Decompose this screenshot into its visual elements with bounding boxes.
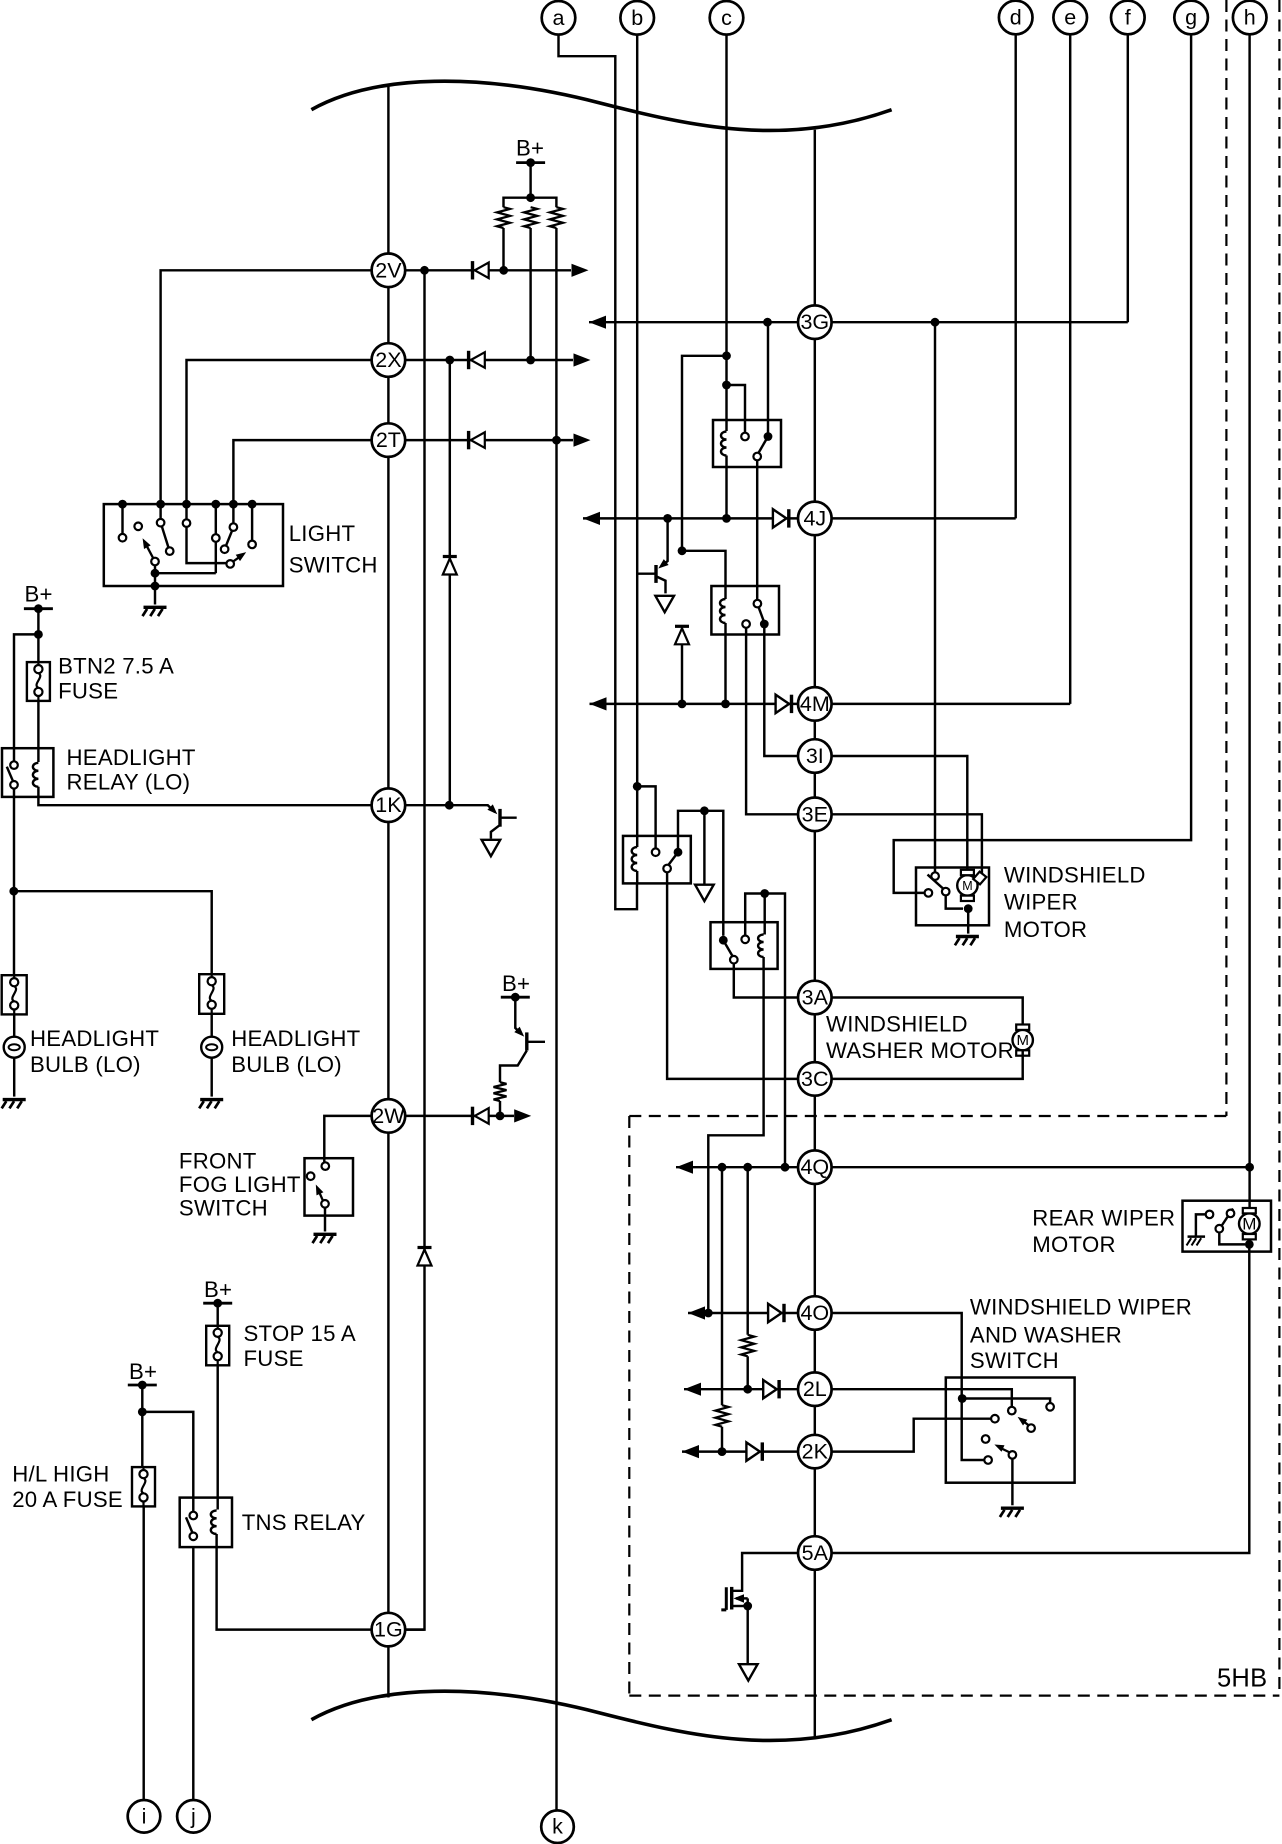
light switch lever with arrow (left) — [143, 538, 154, 558]
resistor R3 (right) — [550, 207, 563, 228]
wire 4M row — [590, 703, 1071, 705]
relay 3 contact open — [652, 848, 660, 856]
svg-text:g: g — [1185, 6, 1197, 30]
label LIGHT SWITCH — [289, 521, 378, 577]
ground (right headlight bulb) — [199, 1100, 223, 1109]
wire left bulb to ground — [13, 1058, 15, 1097]
junction 2W/R4 — [496, 1112, 505, 1121]
label H/L HIGH 20 A FUSE — [12, 1462, 123, 1513]
wire h: down to 4Q line — [1248, 33, 1250, 1167]
svg-text:BULB (LO): BULB (LO) — [30, 1052, 141, 1077]
junction resistor bus — [526, 193, 535, 202]
switch wiper 1 with arrow — [1018, 1417, 1029, 1426]
relay 2 coil — [720, 599, 726, 623]
torn-wire break curve (bottom) — [311, 1691, 891, 1740]
light switch bottom junction — [151, 582, 160, 591]
connector h — [1233, 1, 1267, 35]
wire B+ to STOP fuse — [216, 1303, 218, 1326]
svg-text:h: h — [1244, 6, 1256, 30]
relay 1 contact open — [741, 433, 749, 441]
connector 4J — [798, 502, 832, 536]
windshield wiper motor box — [916, 868, 989, 926]
transistor Q3 arrow — [514, 1027, 524, 1037]
junction 4M/diode line — [678, 700, 687, 709]
junction B+ branch — [34, 630, 43, 639]
wire h-line down to rear motor — [1248, 1167, 1250, 1209]
light switch contact stub 2 — [159, 504, 161, 519]
arrow 3G row — [589, 316, 606, 329]
relay 2 contact top — [754, 600, 762, 608]
connector 2X — [372, 343, 406, 377]
diode D6 on 2W row — [473, 1107, 489, 1125]
wire 2X row right — [405, 359, 573, 361]
label WINDSHIELD WASHER MOTOR — [826, 1012, 1014, 1063]
junction b-line/contact branch — [633, 782, 642, 791]
transistor Q2 bar — [654, 565, 657, 583]
transistor Q1 emitter to ground — [491, 826, 499, 839]
label WINDSHIELD WIPER MOTOR — [1004, 862, 1146, 942]
wire e: down to 4M line — [1069, 33, 1071, 704]
connector 3E — [798, 798, 832, 832]
diode D11 before 2L — [763, 1380, 779, 1398]
wire 5A row left to MOSFET — [733, 1553, 798, 1591]
junction 2K/R6 — [718, 1447, 727, 1456]
svg-text:3A: 3A — [802, 986, 829, 1010]
light switch contact C4 — [166, 547, 174, 555]
wire g: down, left, down into wiper motor switch — [894, 33, 1191, 893]
light switch contact stub 6 — [251, 504, 253, 540]
switch contact C (4O lower) — [984, 1456, 992, 1464]
light switch contact C3 — [157, 519, 165, 527]
wire relay4 coil bottom to 4O row — [708, 957, 763, 1313]
svg-text:1K: 1K — [375, 793, 402, 817]
svg-text:3C: 3C — [801, 1067, 828, 1091]
wire relay contact down to bulbs — [13, 789, 15, 976]
svg-text:REAR WIPER: REAR WIPER — [1032, 1205, 1175, 1230]
svg-text:STOP 15 A: STOP 15 A — [244, 1321, 356, 1346]
arrow 4O row — [688, 1306, 705, 1319]
light switch box — [104, 504, 283, 586]
svg-text:SWITCH: SWITCH — [179, 1195, 268, 1220]
resistor bus — [504, 198, 557, 208]
fog switch contact top — [322, 1162, 330, 1170]
wire fuse to relay coil — [37, 701, 39, 762]
svg-text:b: b — [631, 6, 643, 30]
switch contact A (2L) — [1008, 1407, 1016, 1415]
connector g — [1174, 1, 1208, 35]
svg-text:4J: 4J — [803, 506, 826, 530]
ground triangle (relay3 circuit) — [695, 885, 714, 901]
connector 3I — [798, 739, 832, 773]
connector f — [1111, 1, 1145, 35]
wire branch to right bulb — [14, 891, 212, 974]
svg-text:d: d — [1010, 6, 1022, 30]
wire rear switch common to motor bottom — [1219, 1233, 1245, 1245]
diode D12 before 2K — [746, 1442, 762, 1460]
arrow 2V row — [572, 264, 589, 277]
svg-text:j: j — [190, 1804, 196, 1828]
wire relay2 coil to 4M row — [724, 623, 726, 704]
left connector spine — [387, 87, 389, 1698]
B+ supply (H/L fuse) — [128, 1359, 157, 1390]
wire branch to relay contact — [14, 634, 38, 761]
wire c branch left down (to relay2 coil, diode, 4M) — [682, 356, 727, 551]
svg-text:3I: 3I — [806, 744, 824, 768]
light switch contact C7 — [221, 545, 229, 553]
TNS relay box — [180, 1498, 232, 1548]
wire switch common to motor bottom — [946, 895, 963, 908]
wire c branch to relay1 contact — [727, 385, 746, 433]
MOSFET source bend — [746, 1598, 748, 1606]
relay 4 box — [711, 922, 778, 969]
svg-text:M: M — [1016, 1032, 1029, 1049]
fuse STOP 15 A — [206, 1326, 229, 1366]
wire x=450 from 2X row down to 1K row — [449, 360, 451, 805]
wiper motor switch contact top — [931, 872, 939, 880]
relay 4 contact closed — [719, 936, 728, 945]
junction 4O inside switch — [958, 1394, 967, 1403]
relay 4 lever — [723, 940, 732, 956]
wire 4O branch to contact B — [962, 1399, 1050, 1404]
transistor Q3 base stub — [527, 1041, 545, 1043]
junction 3G/wiper switch line — [931, 318, 940, 327]
relay 1 box (headlight relay HI) — [713, 420, 781, 467]
connector d — [999, 1, 1033, 35]
light switch lever pivot C10 — [226, 560, 234, 568]
wire diode to 4M row — [681, 644, 683, 704]
fog switch common — [321, 1200, 329, 1208]
connector b — [620, 1, 654, 35]
svg-text:WINDSHIELD: WINDSHIELD — [826, 1012, 968, 1037]
relay 1 lever — [759, 437, 769, 453]
wire R4 to 2W row — [499, 1101, 501, 1116]
arrow 2K row — [682, 1445, 699, 1458]
diode D5 on x=450 line (pointing up) — [443, 557, 457, 575]
light switch contact stub 4 — [215, 504, 217, 534]
wire 2W row right — [405, 1115, 514, 1117]
wire B+ down to H/L fuse — [141, 1385, 143, 1467]
wire 3I to wiper motor — [832, 756, 968, 872]
label FRONT FOG LIGHT SWITCH — [179, 1149, 301, 1221]
diode D2 on 2X row — [469, 351, 485, 369]
wire rear motor bottom to 5A row — [832, 1244, 1250, 1553]
fog switch lever with arrow — [316, 1185, 324, 1201]
svg-text:2W: 2W — [372, 1104, 405, 1128]
connector 2V — [372, 253, 406, 287]
svg-text:B+: B+ — [502, 971, 530, 996]
wire relay coil to 1K row — [38, 787, 371, 805]
svg-text:4Q: 4Q — [800, 1155, 829, 1179]
wire right bulb to ground — [210, 1058, 212, 1097]
label 5HB — [1217, 1664, 1267, 1692]
resistor R4 (fog) — [494, 1082, 507, 1101]
svg-text:HEADLIGHT: HEADLIGHT — [67, 745, 196, 770]
svg-text:FUSE: FUSE — [244, 1346, 304, 1371]
connector 4M — [798, 687, 832, 721]
switch contact D (2K) — [991, 1415, 999, 1423]
junction diode-line/relay2 coil — [678, 546, 687, 555]
relay 4 coil (right side) — [758, 935, 764, 958]
connector 5A — [798, 1536, 832, 1570]
wire fuse to right bulb — [210, 1014, 212, 1037]
junction MOSFET source — [743, 1602, 752, 1611]
arrow 4M row — [590, 697, 607, 710]
resistor R2 (middle) — [524, 207, 537, 228]
wire relay1 closed contact up to 3G — [767, 322, 769, 436]
svg-text:H/L HIGH: H/L HIGH — [12, 1462, 109, 1487]
svg-text:HEADLIGHT: HEADLIGHT — [30, 1026, 159, 1051]
label REAR WIPER MOTOR — [1032, 1205, 1175, 1257]
fuse H/L HIGH 20 A — [132, 1467, 155, 1506]
wire fuse to left bulb — [13, 1014, 15, 1036]
ground (left headlight bulb) — [2, 1100, 26, 1109]
light switch terminal junctions — [118, 500, 256, 509]
relay 4 contact open — [741, 936, 749, 944]
switch wiper 2 with arrow — [994, 1445, 1009, 1453]
relay 1 contact closed — [764, 432, 773, 441]
svg-text:BTN2 7.5 A: BTN2 7.5 A — [58, 653, 174, 678]
wire TNS coil to 1G — [217, 1534, 372, 1630]
junction bulb branch — [9, 887, 18, 896]
light switch contact C2 — [134, 523, 142, 531]
B+ supply (headlight relay) — [24, 582, 53, 614]
dashed 5HB box bottom edge — [629, 1694, 1279, 1696]
wire 2V row right — [405, 269, 571, 271]
connector 2T — [372, 423, 406, 457]
headlight bulb (LO) left — [4, 1037, 25, 1058]
fuse BTN2 7.5 A — [27, 662, 50, 701]
headlight relay contact top — [10, 761, 18, 769]
svg-text:2X: 2X — [375, 348, 401, 372]
B+ supply (fog transistor) — [501, 971, 530, 1001]
ground (light switch) — [143, 607, 167, 616]
wire R1 to 2V row — [502, 228, 504, 270]
diode D9 before 4M — [776, 695, 792, 713]
wire f: down to 3G line — [1127, 33, 1129, 322]
junction 4Q/resistor to 2L — [743, 1163, 752, 1172]
junction relay4 coil top — [760, 889, 769, 898]
TNS relay coil — [211, 1510, 217, 1534]
light switch contact C8 — [230, 523, 238, 531]
svg-text:B+: B+ — [25, 582, 53, 607]
label WINDSHIELD WIPER AND WASHER SWITCH — [970, 1294, 1192, 1373]
light switch closed contact C3-C4 — [162, 526, 169, 547]
headlight relay contact bottom — [10, 781, 18, 789]
svg-text:M: M — [962, 879, 972, 893]
ground (rear motor) — [1187, 1237, 1206, 1246]
relay 2 lever — [759, 607, 764, 620]
resistor R5 (4Q to 2L) — [741, 1167, 754, 1389]
wire x=424 from 2V row down to 1G — [406, 270, 425, 1629]
svg-text:c: c — [721, 6, 732, 30]
wire 1K row right — [405, 805, 495, 812]
headlight relay lever — [7, 767, 13, 782]
connector e — [1053, 1, 1087, 35]
wiper motor switch lever — [928, 875, 946, 891]
svg-text:B+: B+ — [516, 136, 544, 161]
MOSFET source stub with arrow — [734, 1594, 748, 1603]
transistor Q3 bar — [525, 1032, 528, 1050]
wire to relay2 coil — [682, 551, 726, 599]
relay 4 common — [730, 956, 738, 964]
fuse (right headlight) — [199, 974, 224, 1014]
svg-text:AND WASHER: AND WASHER — [970, 1323, 1122, 1348]
switch wiper 1 pivot — [1027, 1424, 1035, 1432]
MOSFET gate bar — [721, 1587, 726, 1610]
svg-text:FUSE: FUSE — [58, 679, 118, 704]
front fog light switch box — [305, 1158, 354, 1215]
MOSFET drain-source stub — [733, 1605, 748, 1607]
light switch contact stub 1 — [121, 504, 123, 534]
relay 3 contact closed — [674, 848, 683, 857]
wire B+ down — [37, 609, 39, 662]
svg-text:MOTOR: MOTOR — [1004, 917, 1087, 942]
svg-text:TNS RELAY: TNS RELAY — [242, 1510, 366, 1535]
wire wiper motor to ground — [967, 909, 969, 934]
junction c-line lower — [722, 381, 731, 390]
label HEADLIGHT RELAY (LO) — [67, 745, 196, 794]
svg-text:a: a — [553, 6, 565, 30]
motor M (windshield washer) — [1013, 1025, 1033, 1056]
rear motor switch lever — [1222, 1209, 1233, 1226]
junction 4O/relay4 coil line — [704, 1309, 713, 1318]
right connector spine — [814, 130, 816, 1738]
light switch wire C6 down to common bus — [215, 542, 217, 573]
wire 3E to wiper motor tab — [832, 814, 982, 876]
junction 4Q/resistor to 2K — [718, 1163, 727, 1172]
relay 2 contact open — [742, 620, 750, 628]
rear motor switch pivot — [1227, 1210, 1235, 1218]
wire 2V to light switch — [161, 270, 372, 502]
junction c-line upper — [722, 351, 731, 360]
svg-text:WIPER: WIPER — [1004, 890, 1078, 915]
fog switch contact left — [307, 1172, 315, 1180]
svg-text:BULB (LO): BULB (LO) — [231, 1052, 342, 1077]
wire d: down to 4J line — [1014, 33, 1016, 518]
svg-text:4O: 4O — [800, 1301, 829, 1325]
wire k-line from 2T row to connector k — [555, 440, 557, 1810]
light switch contact C9 — [248, 541, 256, 549]
wire relay3 closed contact up and over to relay4 — [678, 811, 723, 936]
dashed boundary line x=1226 (top) — [1225, 0, 1227, 1116]
wire relay3 coil bottom (to a-line) — [636, 871, 638, 883]
wire relay2 open to 3E — [746, 628, 798, 815]
wire 1G right — [406, 1628, 425, 1630]
light switch wire C5 to lever pivot — [187, 527, 227, 563]
light switch common junction — [151, 569, 160, 578]
wire STOP fuse to TNS coil — [216, 1365, 218, 1509]
relay 2 contact closed — [760, 620, 769, 629]
junction 2L/R5 — [743, 1385, 752, 1394]
wire B+ down to resistor bus — [529, 163, 531, 198]
connector 2L — [798, 1372, 832, 1406]
wire R3 to 2T row — [555, 228, 557, 440]
resistor R6 (4Q to 2K) — [716, 1167, 729, 1451]
rear motor ground contact — [1206, 1211, 1214, 1219]
wiper motor switch common — [942, 888, 950, 896]
label STOP 15 A FUSE — [244, 1321, 356, 1371]
junction ground branch — [700, 806, 709, 815]
wire 2L right into switch — [777, 1389, 1012, 1406]
transistor Q2 base wire — [637, 572, 656, 574]
svg-text:MOTOR: MOTOR — [1032, 1232, 1115, 1257]
svg-text:HEADLIGHT: HEADLIGHT — [231, 1026, 360, 1051]
light switch lever pivot C11 — [151, 558, 159, 566]
wire 4O right into switch — [782, 1313, 984, 1460]
switch wiper 2 pivot — [1009, 1451, 1017, 1459]
wire 2T to light switch — [233, 440, 371, 502]
svg-text:i: i — [142, 1804, 147, 1828]
relay 2 box (wiper relay) — [711, 586, 779, 635]
relay 1 coil — [721, 432, 727, 456]
wire washer motor to 3C — [832, 1051, 1023, 1079]
relay 3 common — [663, 865, 671, 873]
wire junction to ground — [703, 811, 705, 884]
diode D3 on 2T row — [469, 431, 485, 449]
headlight relay coil — [33, 763, 39, 787]
ground triangle (MOSFET) — [739, 1664, 758, 1680]
wire 4Q row — [676, 1166, 1250, 1168]
svg-text:2L: 2L — [803, 1377, 827, 1401]
junction on 2X row (x=450) — [445, 356, 454, 365]
light switch common bus — [155, 565, 216, 586]
wire R2 to 2X row — [529, 228, 531, 360]
wire 2T row right — [405, 439, 573, 441]
wire relay4 open contact up over to 4Q line — [745, 894, 785, 1168]
junction 1K/x450 — [445, 801, 454, 810]
fuse (left headlight) — [2, 975, 27, 1014]
diode D1 on 2V row — [473, 261, 489, 279]
TNS relay contact top — [190, 1512, 198, 1520]
junction 4Q/relay4 — [781, 1163, 790, 1172]
diode D10 before 4O — [768, 1304, 784, 1322]
light switch contact C1 — [119, 534, 127, 542]
rear wiper motor box — [1183, 1201, 1272, 1252]
connector i — [128, 1800, 161, 1833]
ground triangle (Q2) — [655, 596, 674, 612]
junction 4J/Q2 — [663, 514, 672, 523]
motor M (rear wiper) — [1239, 1208, 1260, 1239]
svg-text:3G: 3G — [800, 310, 829, 334]
connector 2W — [372, 1099, 406, 1133]
wire c: straight down to relay 1 coil — [725, 34, 727, 431]
svg-text:M: M — [1242, 1215, 1256, 1234]
MOSFET channel bar — [730, 1587, 733, 1610]
svg-text:k: k — [552, 1815, 563, 1839]
connector 2K — [798, 1435, 832, 1469]
diode D7 before 4J — [773, 509, 789, 527]
switch contact G — [982, 1435, 990, 1443]
label HEADLIGHT BULB (LO) left — [30, 1026, 159, 1077]
wire relay3 common down to 3C — [667, 872, 798, 1079]
wire 3A to washer motor loop — [832, 998, 1023, 1030]
arrow 4Q row — [676, 1161, 693, 1174]
junction 2X/R2 — [526, 356, 535, 365]
TNS relay contact bottom — [190, 1533, 198, 1541]
junction 2T/R3 (k-line) — [552, 436, 561, 445]
label HEADLIGHT BULB (LO) right — [231, 1026, 360, 1077]
TNS relay lever — [186, 1517, 192, 1532]
wire b branch to relay3 contact — [637, 786, 655, 848]
wire 3G row — [589, 321, 1128, 323]
wire a: down right to x=615.3 then down to relay coil return — [559, 34, 638, 909]
arrow 2W row — [514, 1109, 531, 1122]
wire wiper2 pivot to ground — [1011, 1459, 1013, 1506]
diode D8 (pointing up) on x=682 — [675, 626, 689, 644]
svg-text:2T: 2T — [376, 428, 401, 452]
svg-text:WINDSHIELD WIPER: WINDSHIELD WIPER — [970, 1294, 1192, 1319]
transistor Q1 right stub — [500, 816, 517, 818]
